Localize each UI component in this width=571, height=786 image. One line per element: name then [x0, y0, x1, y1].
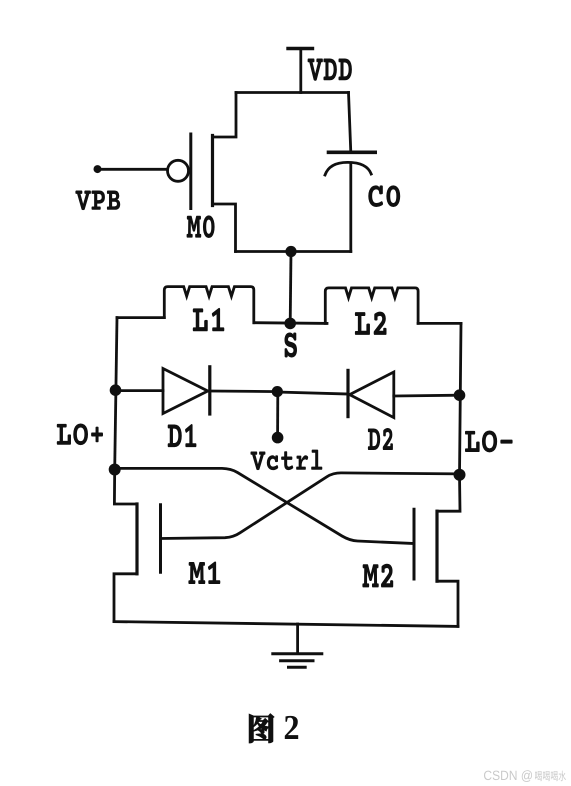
label LO- — [465, 430, 513, 452]
ground — [273, 624, 322, 667]
wire Vctrl node to D2 — [277, 392, 348, 394]
label D2 — [368, 428, 393, 450]
transistor M2 — [414, 475, 460, 627]
wire top rail — [236, 91, 349, 94]
wire right rail — [460, 323, 462, 475]
watermark CSDN — [484, 770, 532, 782]
junction dot LO+ — [109, 464, 121, 476]
label Vctrl — [251, 450, 323, 471]
label M2 — [362, 564, 393, 588]
terminal Vctrl dot — [272, 432, 284, 444]
wire cross LO- to M1 gate — [161, 473, 460, 539]
junction dot left diode node — [110, 384, 122, 396]
label L1 — [193, 308, 225, 331]
transistor M1 — [114, 469, 161, 622]
wire D1 to Vctrl node — [210, 390, 277, 393]
label M0 — [187, 215, 215, 238]
label S — [285, 333, 298, 358]
wire D2 to right rail — [394, 394, 460, 398]
junction dot node A — [285, 246, 296, 257]
label L2 — [355, 312, 387, 335]
label D1 — [168, 424, 197, 447]
transistor M0 — [168, 134, 236, 252]
diode D1 — [163, 367, 210, 414]
wire Vctrl stub — [276, 394, 279, 434]
wire cross LO+ to M2 gate — [115, 468, 414, 543]
label VDD — [308, 59, 352, 81]
caption figure 2 : hanzi — [249, 714, 274, 743]
junction dot node S — [284, 318, 296, 330]
junction dot right diode node — [454, 389, 466, 401]
wire M0/C0 bottom row — [236, 250, 351, 253]
capacitor C0 — [325, 93, 375, 252]
inductor L1 — [117, 316, 164, 319]
wire M0 drain drop — [213, 93, 237, 138]
caption figure 2 : digit — [285, 716, 298, 739]
diode D2 — [348, 370, 394, 417]
wire rail to D1 — [116, 389, 164, 392]
wire VPB lead — [99, 168, 168, 171]
label M1 — [188, 562, 220, 584]
junction dot LO- — [454, 469, 466, 481]
inductor L2 — [325, 288, 418, 324]
junction dot Vctrl node — [272, 386, 283, 397]
label VPB — [75, 191, 120, 211]
terminal VPB dot — [94, 165, 102, 173]
label C0 — [368, 185, 400, 207]
wire S row — [254, 321, 327, 324]
power VDD symbol — [288, 49, 313, 93]
wire left rail — [115, 318, 117, 469]
label LO+ — [57, 423, 103, 445]
wire bottom rail — [114, 622, 458, 627]
wire node A to S — [289, 252, 293, 324]
